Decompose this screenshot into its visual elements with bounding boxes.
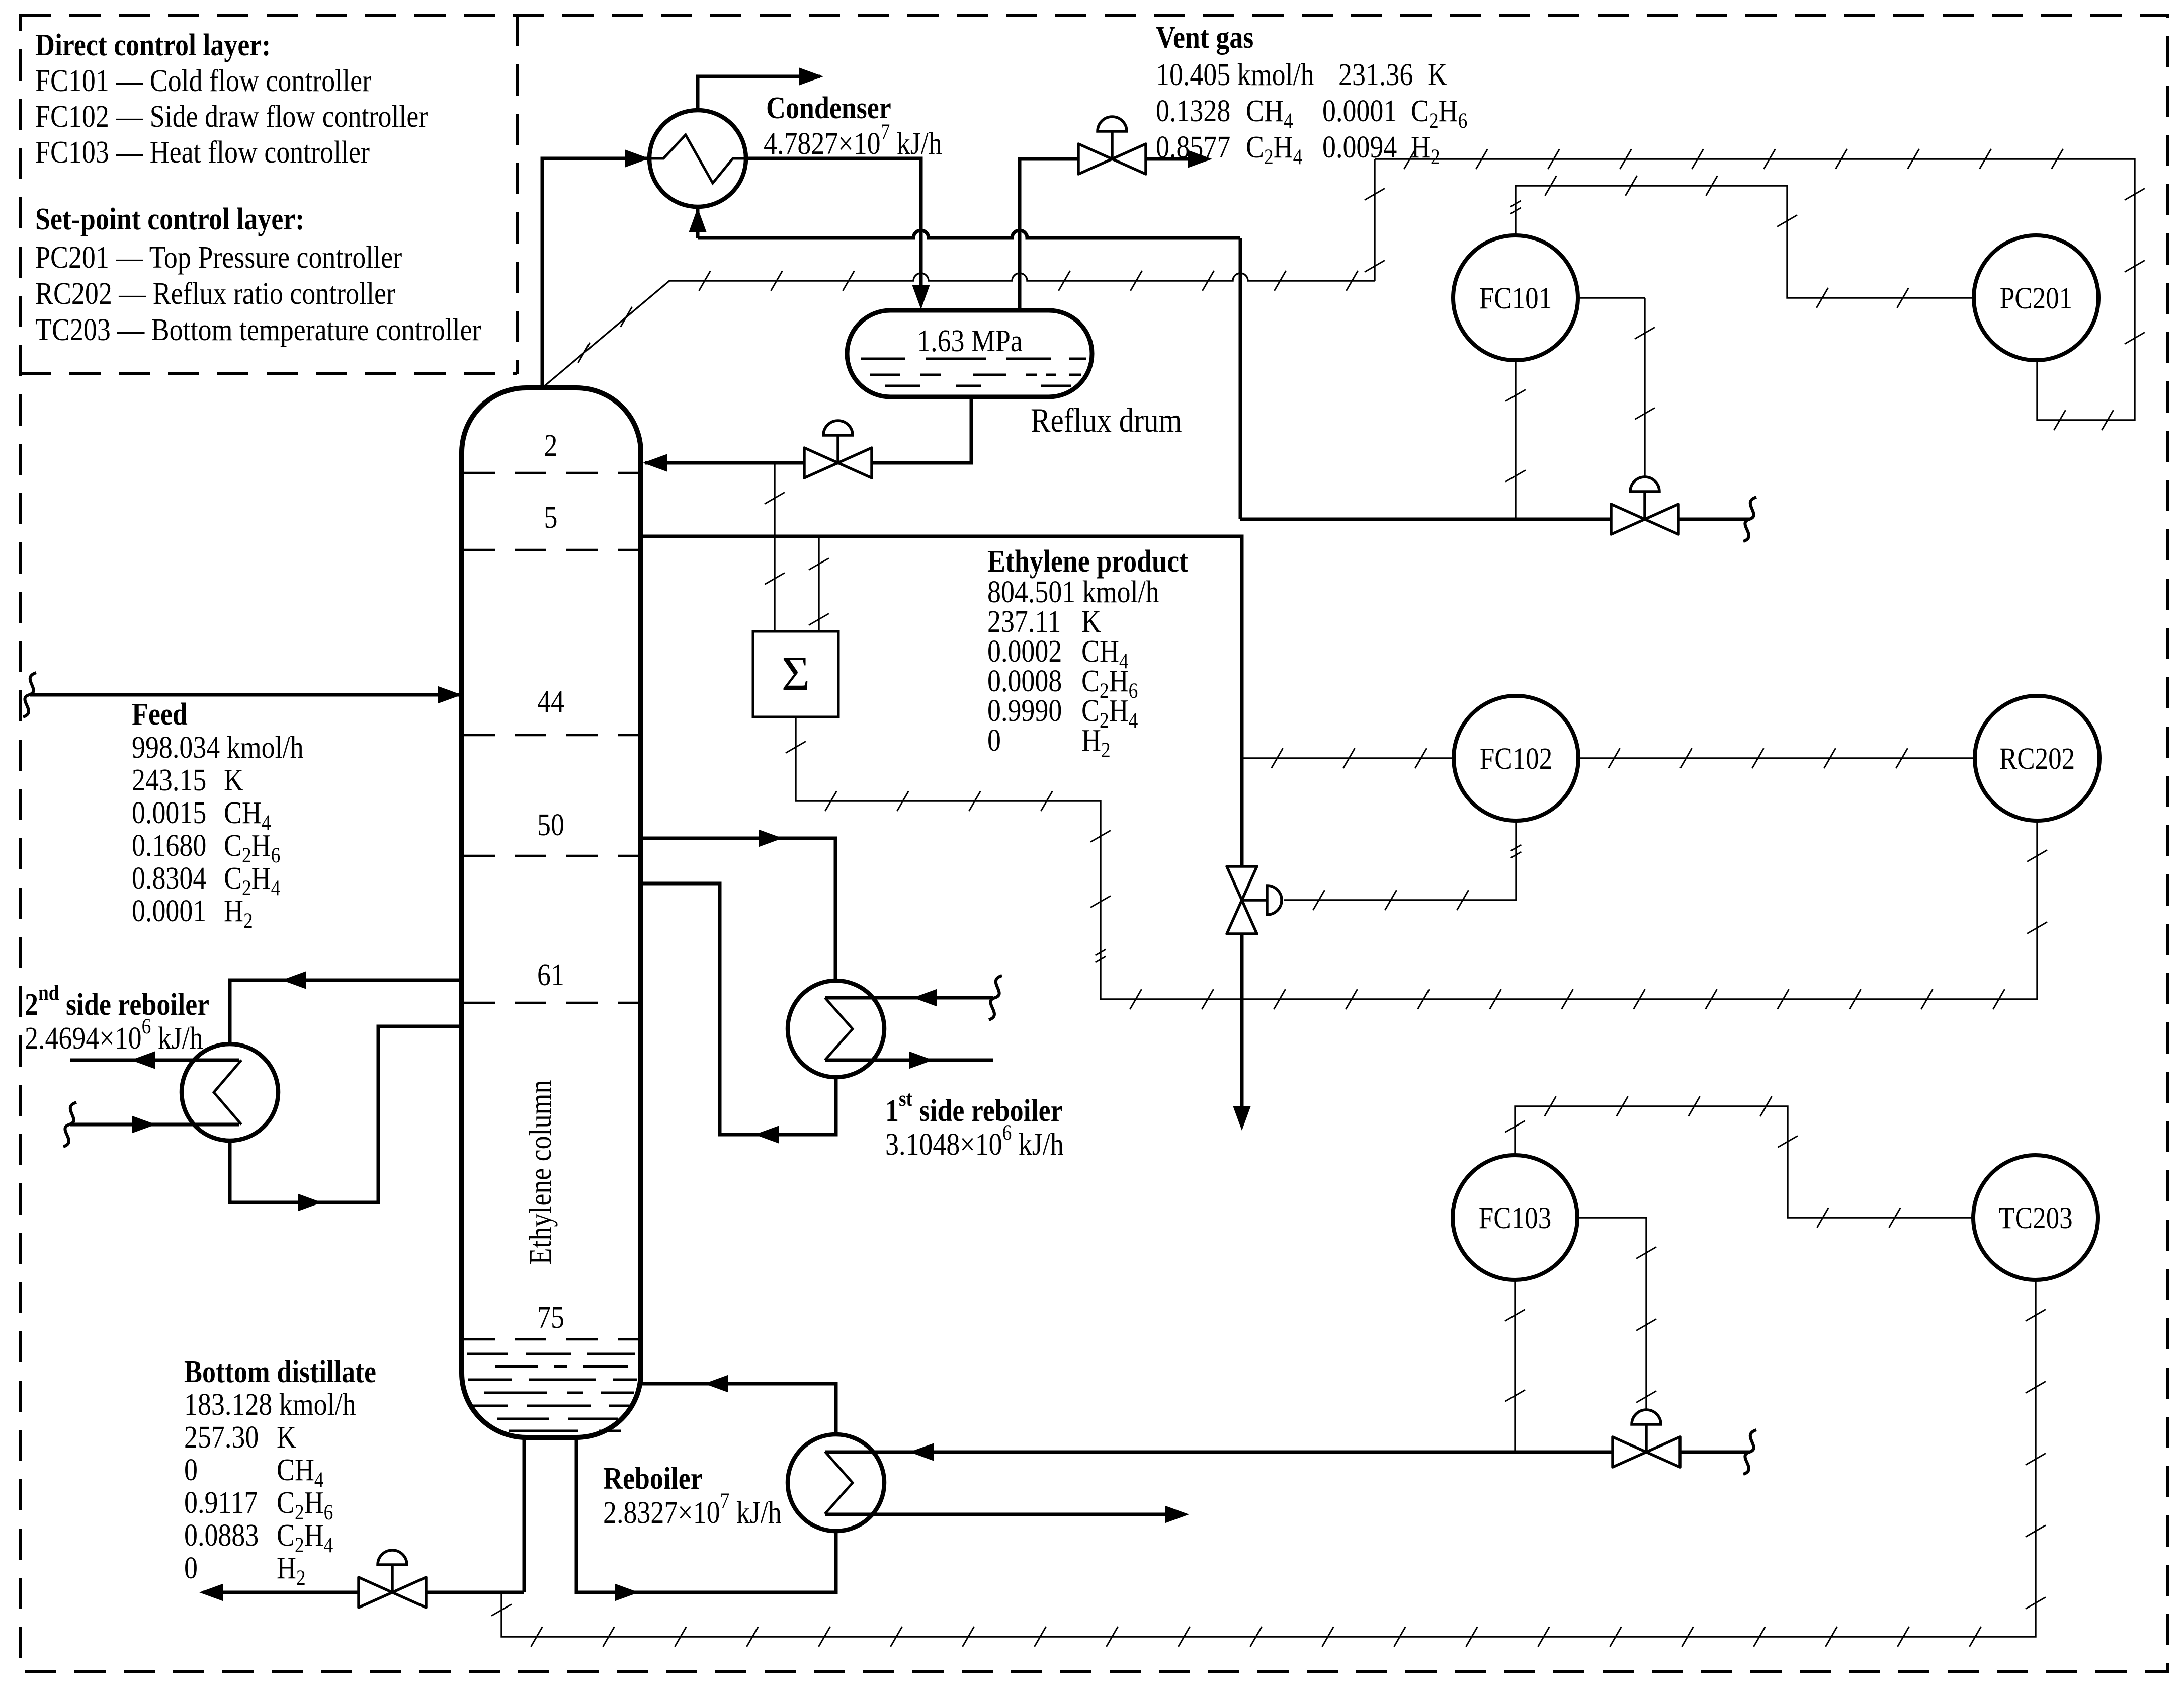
controller FC103 [1453,1155,1577,1280]
arrow ethylene product out (down) [1233,1106,1251,1131]
svg-text:K: K [224,763,243,797]
ethylene product stream table [987,544,1189,762]
wire: 2nd side reboiler return to column [230,1026,462,1202]
arrow into drum top [912,282,930,309]
svg-text:FC102: FC102 [1480,742,1552,776]
svg-text:0.0883: 0.0883 [184,1518,259,1553]
wire: product draw from tray 5 [641,536,1242,866]
svg-text:50: 50 [537,808,564,842]
arrow heating fluid into reboiler [909,1443,934,1461]
wire: 1st reboiler coolant in [825,996,993,1000]
wire: 1st reboiler coolant out [825,1059,993,1062]
legend: FC102 entry [35,99,428,134]
1st side reboiler label [885,1087,1064,1162]
svg-text:Vent gas: Vent gas [1156,20,1253,55]
column tray label 75 [537,1300,564,1335]
arrow on 2nd reboiler draw [282,972,306,989]
wire: drum to reflux valve [804,397,971,463]
svg-text:TC203: TC203 [1998,1201,2072,1235]
pipe break squiggle after FC101 valve [1743,497,1756,541]
svg-text:FC103 — Heat flow controller: FC103 — Heat flow controller [35,135,370,170]
wire: drum riser to vent valve [1020,159,1078,310]
legend: PC201 entry [35,240,402,275]
bottom distillate stream table [184,1354,376,1590]
svg-text:4.7827×107 kJ/h: 4.7827×107 kJ/h [764,120,942,161]
wire: column bottom right downcomer to reboiler [576,1435,836,1592]
drum pressure label [917,324,1023,358]
controller PC201 [1974,235,2098,360]
svg-text:Set-point control layer:: Set-point control layer: [35,202,304,236]
controller RC202 [1975,696,2099,821]
column tray 50 dashed line [464,855,639,857]
2nd reboiler coolant squiggle [63,1102,76,1147]
legend: set-point control layer title [35,202,304,236]
2nd side reboiler E3 [182,1044,278,1141]
arrow 1st reboiler coolant out [909,1052,933,1069]
svg-text:0.1328: 0.1328 [1156,94,1230,128]
FC103 control valve V6 [1613,1410,1680,1467]
wire: column bottom left downcomer [523,1435,526,1592]
wire: condenser coolant line (bottom) [698,207,1240,519]
wire: pipe after FC103 valve [1681,1451,1750,1454]
1st side reboiler E2 [788,981,884,1077]
svg-text:FC103: FC103 [1479,1201,1551,1235]
svg-text:FC101: FC101 [1479,282,1552,315]
svg-text:TC203 — Bottom temperature con: TC203 — Bottom temperature controller [35,312,481,347]
svg-text:0: 0 [184,1551,198,1585]
arrow on tray50 draw [759,830,783,847]
arrow 2nd reboiler coolant out [131,1052,155,1069]
condenser label [764,91,942,161]
column tray 75 dashed line [464,1338,639,1341]
svg-text:183.128 kmol/h: 183.128 kmol/h [184,1387,356,1422]
signal: FC101 output to valve [1578,298,1655,478]
signal: FC103 measurement tap [1505,1280,1525,1452]
arrow to reboiler [615,1584,639,1601]
reflux valve V2 [804,421,872,478]
arrow on 2nd reboiler return [298,1194,322,1212]
svg-text:RC202 — Reflux ratio controlle: RC202 — Reflux ratio controller [35,276,395,311]
svg-text:0.8577: 0.8577 [1156,130,1230,165]
wire: feed pipe into column [30,693,460,697]
wire: 1st side reboiler return to column [641,883,836,1135]
pipe break squiggle after FC103 valve [1743,1430,1756,1474]
controller FC101 [1453,235,1578,360]
wire: tray50 draw to 1st side reboiler [641,838,835,981]
bottoms valve V4 [359,1550,426,1608]
svg-text:Bottom distillate: Bottom distillate [184,1354,376,1389]
column tray 2 dashed line [464,472,639,474]
svg-text:44: 44 [537,684,564,719]
signal: pressure line to PC201 [1375,149,2145,430]
wire: bottoms line after valve [203,1591,358,1594]
column tray 44 dashed line [464,734,639,737]
wire: FC101 valve pipe [1240,518,1611,521]
svg-text:0.9117: 0.9117 [184,1485,258,1520]
arrow reboiler return into column [704,1375,728,1393]
legend: RC202 entry [35,276,395,311]
border: legend box right edge [516,15,519,374]
signal: reflux flow tap to sum block [765,463,785,631]
svg-text:61: 61 [537,957,564,992]
product control valve V3 (vertical) [1227,866,1282,934]
column bottom liquid level dashes [467,1354,637,1431]
svg-text:1.63 MPa: 1.63 MPa [917,324,1023,358]
feed stream break squiggle [23,673,36,717]
svg-text:2.8327×107 kJ/h: 2.8327×107 kJ/h [603,1489,782,1530]
signal: product flow tap to sum block [809,536,829,631]
1st reboiler coolant squiggle [989,976,1002,1020]
wire: pipe after FC101 valve [1679,518,1750,521]
signal: sum block output to RC202 [786,717,2047,1009]
svg-text:10.405 kmol/h: 10.405 kmol/h [1156,57,1314,92]
svg-text:Σ: Σ [782,647,810,700]
column name label (rotated) [523,1080,558,1265]
wire: reboiler vapour return to column [641,1384,836,1434]
signal: PC201 output to FC101 setpoint [1510,176,1974,308]
wire: reflux valve to column [645,461,804,465]
svg-text:243.15: 243.15 [132,763,206,797]
signal: FC102 measurement from product line [1242,748,1453,768]
controller FC102 [1454,696,1578,821]
svg-text:K: K [1427,57,1447,92]
condenser E1 circle [649,110,746,207]
column tray label 2 [544,428,558,463]
svg-text:998.034 kmol/h: 998.034 kmol/h [132,730,304,765]
reflux drum D1 [847,310,1092,397]
arrow on 1st reboiler return [754,1126,779,1144]
svg-text:FC102 — Side draw flow control: FC102 — Side draw flow controller [35,99,428,134]
signal: column top pressure tap [542,159,1385,388]
reflux drum label [1031,401,1182,439]
2nd side reboiler label [25,981,209,1056]
wire: reboiler heating fluid out [825,1513,1168,1516]
signal: RC202 output to FC102 setpoint [1579,748,1975,768]
svg-text:RC202: RC202 [1999,742,2075,776]
svg-text:0.0001: 0.0001 [1322,94,1397,128]
wire: reboiler heating fluid in [825,1451,1612,1454]
svg-text:Ethylene product: Ethylene product [987,544,1189,579]
svg-text:2: 2 [544,428,558,463]
drum liquid level dashes [861,359,1086,386]
svg-text:K: K [277,1420,296,1455]
wire: 2nd reboiler coolant out [70,1059,239,1062]
wire: column top to condenser inlet [542,158,647,388]
signal: TC203 output to FC103 setpoint [1505,1096,1973,1228]
signal: bottoms temperature tap [491,1280,2046,1647]
svg-text:2.4694×106 kJ/h: 2.4694×106 kJ/h [25,1014,203,1056]
svg-text:Direct control layer:: Direct control layer: [35,28,271,62]
legend: FC101 entry [35,63,371,98]
arrow reflux into column [643,454,667,472]
wire: condenser outlet to reflux drum [746,158,921,282]
wire: vent valve outlet [1146,157,1208,161]
signal: FC101 measurement tap [1505,360,1526,519]
svg-text:Condenser: Condenser [766,91,891,125]
svg-text:Reflux drum: Reflux drum [1031,401,1182,439]
column tray label 61 [537,957,564,992]
column tray 61 dashed line [464,1002,639,1004]
column tray label 5 [544,500,558,535]
svg-text:PC201 — Top Pressure controlle: PC201 — Top Pressure controller [35,240,402,275]
wire: bottoms product line [427,1591,524,1594]
legend: TC203 entry [35,312,481,347]
wire: 2nd reboiler coolant in [70,1123,239,1127]
signal: FC103 output to valve [1577,1218,1656,1411]
svg-text:0: 0 [987,723,1001,758]
svg-text:0: 0 [184,1453,198,1487]
arrow coolant into 1st reboiler [913,989,937,1007]
arrow condenser top outlet [799,68,823,86]
reboiler label [603,1461,782,1530]
controller TC203 [1973,1155,2098,1280]
arrow bottom distillate out [199,1584,223,1601]
wire: condenser vapour outlet (top) [698,76,820,110]
border: legend box bottom edge [20,372,517,375]
legend: direct control layer title [35,28,271,62]
arrow vent gas out [1188,150,1212,168]
svg-text:Reboiler: Reboiler [603,1461,703,1496]
FC101 control valve V5 [1611,477,1678,534]
svg-text:3.1048×106 kJ/h: 3.1048×106 kJ/h [885,1120,1064,1162]
svg-text:FC101 — Cold flow controller: FC101 — Cold flow controller [35,63,371,98]
feed stream table [132,697,304,933]
svg-text:257.30: 257.30 [184,1420,259,1455]
column tray 5 dashed line [464,549,639,551]
svg-text:0.0001: 0.0001 [132,894,206,928]
svg-text:Ethylene column: Ethylene column [523,1080,558,1265]
svg-text:0.8304: 0.8304 [132,861,206,896]
arrow heating fluid out [1165,1506,1189,1523]
svg-text:Feed: Feed [132,697,188,732]
vent valve V1 [1078,117,1146,174]
arrow into condenser [625,150,649,168]
svg-text:231.36: 231.36 [1338,57,1413,92]
vent gas stream table [1156,20,1467,169]
feed arrow into column [438,686,462,704]
svg-text:0.1680: 0.1680 [132,828,206,863]
wire: column draw to 2nd side reboiler [230,980,462,1044]
arrow coolant into condenser [689,208,707,232]
column C1 (Ethylene column vessel) [462,388,641,1437]
svg-text:75: 75 [537,1300,564,1335]
sum block Σ [753,631,838,717]
reboiler E4 [788,1434,884,1531]
svg-text:0.0015: 0.0015 [132,795,206,830]
wire: product valve to outlet [1240,934,1244,1109]
svg-text:5: 5 [544,500,558,535]
legend: FC103 entry [35,135,370,170]
column tray label 44 [537,684,564,719]
svg-text:PC201: PC201 [2000,282,2072,315]
column tray label 50 [537,808,564,842]
arrow coolant into 2nd reboiler [132,1116,156,1134]
signal: FC102 output to product valve [1284,821,1521,910]
